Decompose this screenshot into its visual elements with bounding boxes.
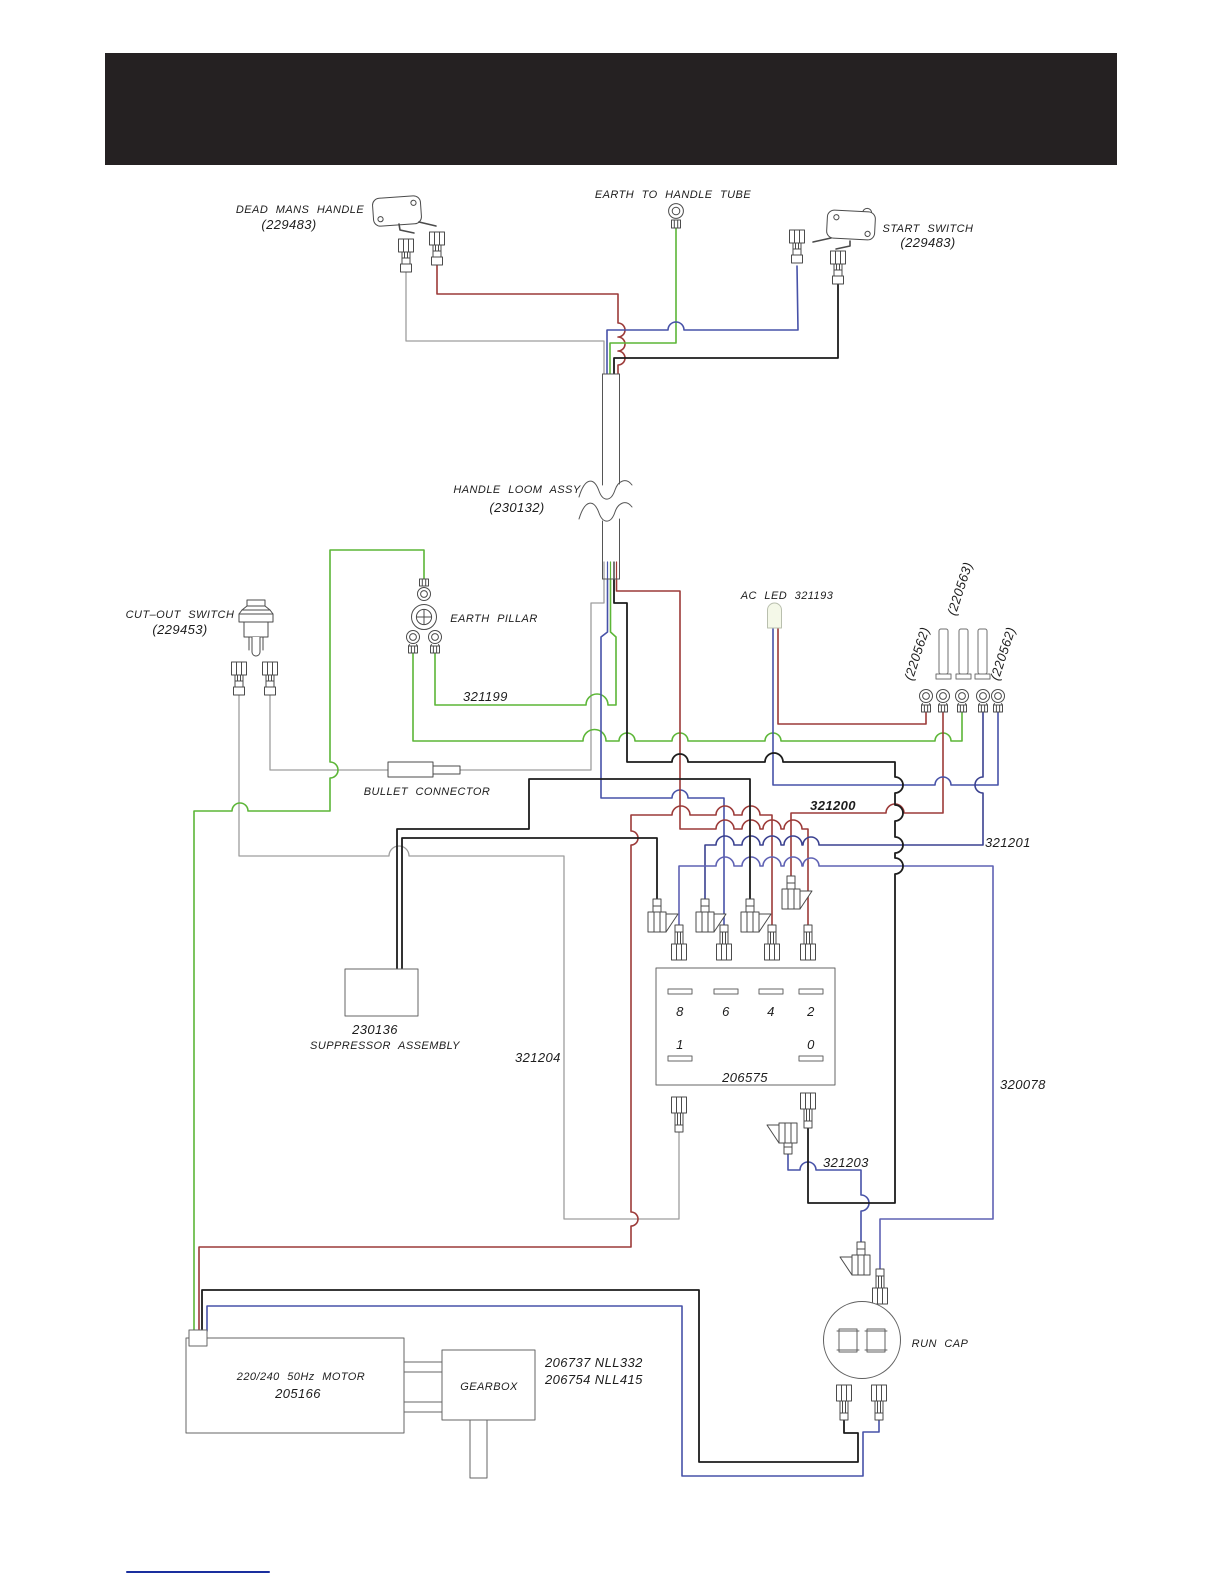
flag connector: block pin 8	[648, 899, 678, 932]
svg-text:320078: 320078	[1000, 1077, 1046, 1092]
svg-text:321200: 321200	[810, 798, 856, 813]
svg-text:4: 4	[767, 1004, 775, 1019]
wire black: loom exit long run to start area and down right side to pin 0, hops red, led, blue, red, navy, blue	[614, 580, 903, 1203]
svg-text:(229483): (229483)	[900, 235, 955, 250]
svg-text:206754 NLL415: 206754 NLL415	[544, 1372, 643, 1387]
straight connector: run cap bottom left (head up)	[837, 1385, 852, 1420]
wire green inside loom lower	[610, 562, 612, 580]
svg-text:CUT–OUT SWITCH: CUT–OUT SWITCH	[126, 609, 235, 621]
ring terminal: 220562 blue 321201	[977, 690, 990, 713]
connector: start switch right spade	[831, 251, 846, 284]
svg-text:205166: 205166	[274, 1386, 321, 1401]
wire grey: cut-out switch right terminal to bullet connector	[270, 691, 388, 770]
svg-text:BULLET CONNECTOR: BULLET CONNECTOR	[364, 786, 491, 798]
wire black: suppressor lower lead to switch block pin 8 flag connector	[402, 838, 657, 969]
svg-text:8: 8	[676, 1004, 684, 1019]
wire blue: AC LED left leg across to ring terminal 220562 right, hops red	[773, 628, 998, 785]
straight connector: block pin 2	[801, 925, 816, 960]
connector: cut-out left spade	[232, 662, 247, 695]
connector: cut-out right spade	[263, 662, 278, 695]
svg-text:6: 6	[722, 1004, 730, 1019]
straight connector: block pin 1 below (inverted)	[672, 1097, 687, 1132]
break wave upper	[579, 481, 632, 499]
connector: dead mans handle left spade	[399, 239, 414, 272]
suppressor assembly box	[345, 969, 418, 1016]
wire red inside loom lower	[616, 562, 618, 580]
gearbox box with coupling stubs and shaft	[404, 1350, 535, 1478]
svg-text:206737 NLL332: 206737 NLL332	[544, 1355, 643, 1370]
svg-text:230136: 230136	[351, 1022, 398, 1037]
svg-text:(220562): (220562)	[987, 625, 1018, 682]
svg-text:321199: 321199	[463, 689, 508, 704]
cut-out switch body	[239, 600, 273, 656]
handle loom assembly tube with break	[579, 374, 632, 579]
bullet connector symbol	[388, 762, 460, 777]
straight connector: block pin 8	[672, 925, 687, 960]
svg-text:206575: 206575	[721, 1070, 768, 1085]
svg-text:321203: 321203	[823, 1155, 869, 1170]
svg-text:321204: 321204	[515, 1050, 561, 1065]
svg-text:GEARBOX: GEARBOX	[460, 1381, 518, 1393]
wire black: run cap left lower terminal to motor	[202, 1290, 858, 1462]
microswitch: dead mans handle	[372, 195, 436, 233]
svg-text:(229453): (229453)	[152, 622, 207, 637]
flag connector: block pin 4	[741, 899, 771, 932]
wire red: dead mans handle right terminal to loom, hops over blue/green/black	[437, 265, 625, 374]
wire blue: loom exit down to switch block pin 6 straight connector, hop over red	[601, 580, 724, 925]
straight connector: run cap right	[873, 1269, 888, 1304]
ring terminal: 220562 blue AC LED	[992, 690, 1005, 713]
svg-text:AC LED 321193: AC LED 321193	[740, 590, 834, 602]
svg-text:SUPPRESSOR ASSEMBLY: SUPPRESSOR ASSEMBLY	[310, 1040, 460, 1052]
wire grey: loom exit to bullet connector	[460, 580, 604, 770]
wire grey 321204: cut-out switch left terminal to switch block pin 1, hops suppressor pair	[239, 691, 679, 1219]
svg-text:(230132): (230132)	[489, 500, 544, 515]
wire red: AC LED right leg to ring terminal 220562	[778, 628, 926, 724]
connector: start switch left spade	[790, 230, 805, 263]
connector: dead mans handle right spade	[430, 232, 445, 265]
ring terminal: 220562 red (AC LED)	[920, 690, 933, 713]
straight connector: run cap bottom right (head up)	[872, 1385, 887, 1420]
flag connector: run cap left	[840, 1242, 870, 1275]
wire green 321199/741: earth pillar left ring across to ring terminal 220562, hops grey+blue, black, red, led legs, red	[413, 652, 962, 741]
wire red 321200: flag connector pin 2 up to ring terminal 220562, hops black	[791, 712, 943, 876]
break wave lower	[579, 503, 632, 521]
wire grey: dead mans handle left terminal to loom	[406, 272, 604, 374]
fixing pins 220562/220563	[936, 629, 990, 679]
flag connector: block pin 6	[696, 899, 726, 932]
ring terminal: 220562 red 321200	[937, 690, 950, 713]
svg-text:RUN CAP: RUN CAP	[912, 1338, 969, 1350]
loom internal wires	[603, 374, 619, 580]
wire blue 320078: switch block pin 8 straight connector to run cap	[679, 857, 993, 1269]
svg-text:321201: 321201	[985, 835, 1031, 850]
earth pillar symbol	[412, 605, 437, 630]
ring terminal: earth pillar lower-right	[429, 631, 442, 654]
straight connector: block pin 4	[765, 925, 780, 960]
run cap circle	[824, 1302, 901, 1379]
wire blue inside loom lower	[607, 562, 609, 580]
svg-text:0: 0	[807, 1037, 815, 1052]
svg-text:EARTH TO HANDLE TUBE: EARTH TO HANDLE TUBE	[595, 189, 752, 201]
ring terminal: earth to handle tube	[669, 204, 684, 228]
straight connector: block pin 0 below (inverted)	[801, 1093, 816, 1128]
svg-text:2: 2	[806, 1004, 815, 1019]
switch block 206575	[656, 968, 835, 1085]
straight connector: block pin 6	[717, 925, 732, 960]
wire red row A: motor feed to switch block pin 4 straight connector	[199, 806, 772, 1331]
svg-text:220/240 50Hz MOTOR: 220/240 50Hz MOTOR	[236, 1371, 365, 1383]
wire green: earth-to-handle-tube ring down to loom	[610, 228, 676, 374]
wire grey inside loom lower	[603, 562, 605, 580]
svg-text:(229483): (229483)	[261, 217, 316, 232]
flag connector: block pin 2	[782, 876, 812, 909]
svg-text:HANDLE LOOM ASSY: HANDLE LOOM ASSY	[453, 484, 580, 496]
footer rule	[127, 1571, 269, 1573]
wire black inside loom lower	[613, 562, 615, 580]
svg-text:DEAD MANS HANDLE: DEAD MANS HANDLE	[236, 204, 364, 216]
wire black: suppressor upper lead to switch block pin 4 flag connector	[397, 779, 750, 969]
microswitch: start switch	[813, 206, 876, 249]
wire green: loom exit to 321199 junction	[435, 580, 616, 705]
wire navy 321201: ring terminal down to switch block pin 6 flag connector, hops row verticals	[705, 712, 983, 899]
svg-text:EARTH PILLAR: EARTH PILLAR	[450, 613, 537, 625]
flag connector: 321203 below block	[767, 1123, 797, 1154]
svg-text:(220562): (220562)	[901, 625, 932, 682]
loom tube white body	[603, 374, 619, 579]
svg-text:START SWITCH: START SWITCH	[883, 223, 974, 235]
svg-text:1: 1	[676, 1037, 684, 1052]
AC LED symbol	[768, 603, 782, 628]
wire blue 321203: flag connector under block to run cap flag connector, hops black	[788, 1154, 869, 1242]
ring terminal: earth pillar lower-left	[407, 631, 420, 654]
wire green: earth pillar top ring loop to cut-out area and down to motor, hops bullet wire and grey	[194, 550, 424, 1331]
ring terminal: earth pillar top (wire above)	[418, 579, 431, 601]
motor box	[186, 1330, 404, 1433]
svg-text:(220563): (220563)	[944, 560, 975, 617]
ring terminal: 220563 green	[956, 690, 969, 713]
wire red: loom exit to row B and switch block pin 2 straight connector	[617, 580, 809, 925]
wire blue: run cap right lower terminal to motor	[207, 1306, 879, 1476]
wire blue: start switch left terminal to loom, hop over green	[607, 266, 798, 374]
wire black: start switch right terminal to loom	[614, 282, 838, 374]
